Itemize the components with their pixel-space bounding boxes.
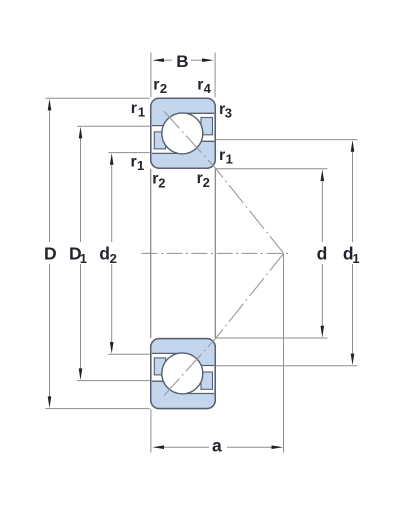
counterbore notch right-top (white) [183,113,215,141]
cage segment (lower left) [154,358,165,375]
d1 extension top [216,139,358,141]
a arrow left [152,445,164,449]
B dimension line [163,59,172,61]
svg-text:1: 1 [137,158,144,173]
svg-text:r: r [153,76,159,93]
contact angle line (upper, dash-dot) [164,111,283,253]
d extension top [216,168,328,170]
d extension bottom [216,337,328,339]
D extension bottom [45,408,150,410]
contact angle line (lower, dash-dot) [164,254,283,396]
d1 arrow up [351,140,355,152]
svg-text:1: 1 [138,105,145,120]
B arrow right [202,58,214,62]
d2 dimension line [111,161,113,242]
B extension line left [150,53,152,98]
D1 extension bottom [77,380,150,382]
svg-text:4: 4 [204,81,212,96]
recess line (lower left) [152,352,183,354]
svg-text:2: 2 [160,81,167,96]
svg-text:B: B [176,52,188,71]
svg-text:2: 2 [158,176,165,191]
d2 extension top [108,152,150,154]
D dimension line [49,107,51,242]
upper bearing section group [151,98,284,253]
recess notch left (lower, white) [152,353,183,381]
outer ring left shoulder line [152,125,183,127]
counterbore line (lower) [183,393,215,395]
inner ring left recess line [152,152,183,154]
apex pressure-centre vertical extension [283,253,285,452]
svg-text:r: r [197,76,203,93]
d arrow up [321,169,325,181]
svg-text:a: a [212,436,222,456]
a extension line left [150,409,152,452]
svg-text:1: 1 [80,251,87,266]
D arrow up [48,99,52,111]
svg-text:r: r [131,154,137,171]
B extension line right [214,53,216,98]
ball (lower) [162,353,203,394]
d arrow down [321,326,325,338]
d dimension line [321,179,323,242]
svg-text:d: d [99,244,110,264]
upper section border redraw [151,98,216,168]
a arrow right [272,445,284,449]
d2 arrow down [110,342,114,354]
d2 arrow up [110,153,114,165]
horizontal centerline (rotation axis) [142,252,290,254]
ball (upper) [162,113,203,154]
d1 arrow down [351,354,355,366]
svg-text:r: r [219,147,225,164]
bearing body (lower) [151,339,216,409]
outer ring counterbore line [183,112,215,114]
a dimension line [163,446,209,448]
shoulder line (lower right) [183,365,215,367]
counterbore notch right (lower, white) [183,366,215,394]
D1 dimension line [80,135,82,242]
svg-text:r: r [131,100,137,117]
svg-text:2: 2 [110,251,117,266]
recess notch left-bottom (white) [152,126,183,154]
D1 arrow up [79,127,83,139]
bore line right (between sections) [214,169,216,338]
D extension top [45,97,150,99]
D arrow down [48,396,52,408]
cage segment left-bottom [154,132,165,149]
outer+inner ring blue body (upper) [151,98,216,168]
svg-text:1: 1 [226,151,233,166]
cage segment (lower right) [201,372,213,389]
shoulder line (lower left) [152,380,183,382]
svg-text:2: 2 [203,175,210,190]
inner ring right shoulder line [183,140,215,142]
D1 arrow down [79,368,83,380]
svg-text:D: D [44,244,57,264]
bore line left (between sections) [150,169,152,338]
d1 dimension line [352,149,354,242]
svg-text:3: 3 [225,105,232,120]
svg-text:d: d [317,244,328,264]
d2 extension bottom [108,353,150,355]
D1 extension top [77,125,150,127]
B arrow left [152,58,164,62]
lower section border redraw [151,339,216,409]
d1 extension bottom [216,365,358,367]
cage segment right-top [201,118,213,135]
svg-text:1: 1 [352,251,359,266]
lower bearing section group (mirror of upper about y=253.4) [151,254,284,409]
